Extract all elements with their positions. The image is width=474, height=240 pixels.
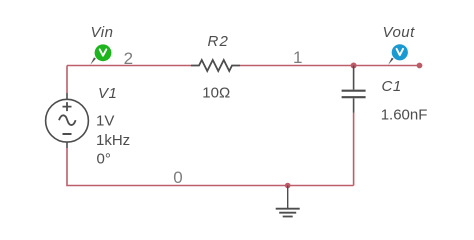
svg-text:0°: 0°	[97, 150, 111, 167]
svg-text:10Ω: 10Ω	[202, 85, 230, 102]
svg-text:0: 0	[173, 168, 182, 187]
svg-text:1.60nF: 1.60nF	[381, 107, 428, 124]
svg-text:2: 2	[124, 49, 133, 68]
svg-text:R2: R2	[208, 33, 230, 50]
svg-text:Vout: Vout	[383, 24, 416, 41]
svg-text:V1: V1	[98, 85, 117, 102]
svg-text:Vin: Vin	[91, 24, 114, 41]
svg-text:1kHz: 1kHz	[96, 132, 130, 149]
svg-text:1: 1	[293, 48, 302, 67]
svg-text:C1: C1	[382, 78, 402, 95]
svg-text:1V: 1V	[96, 113, 114, 130]
